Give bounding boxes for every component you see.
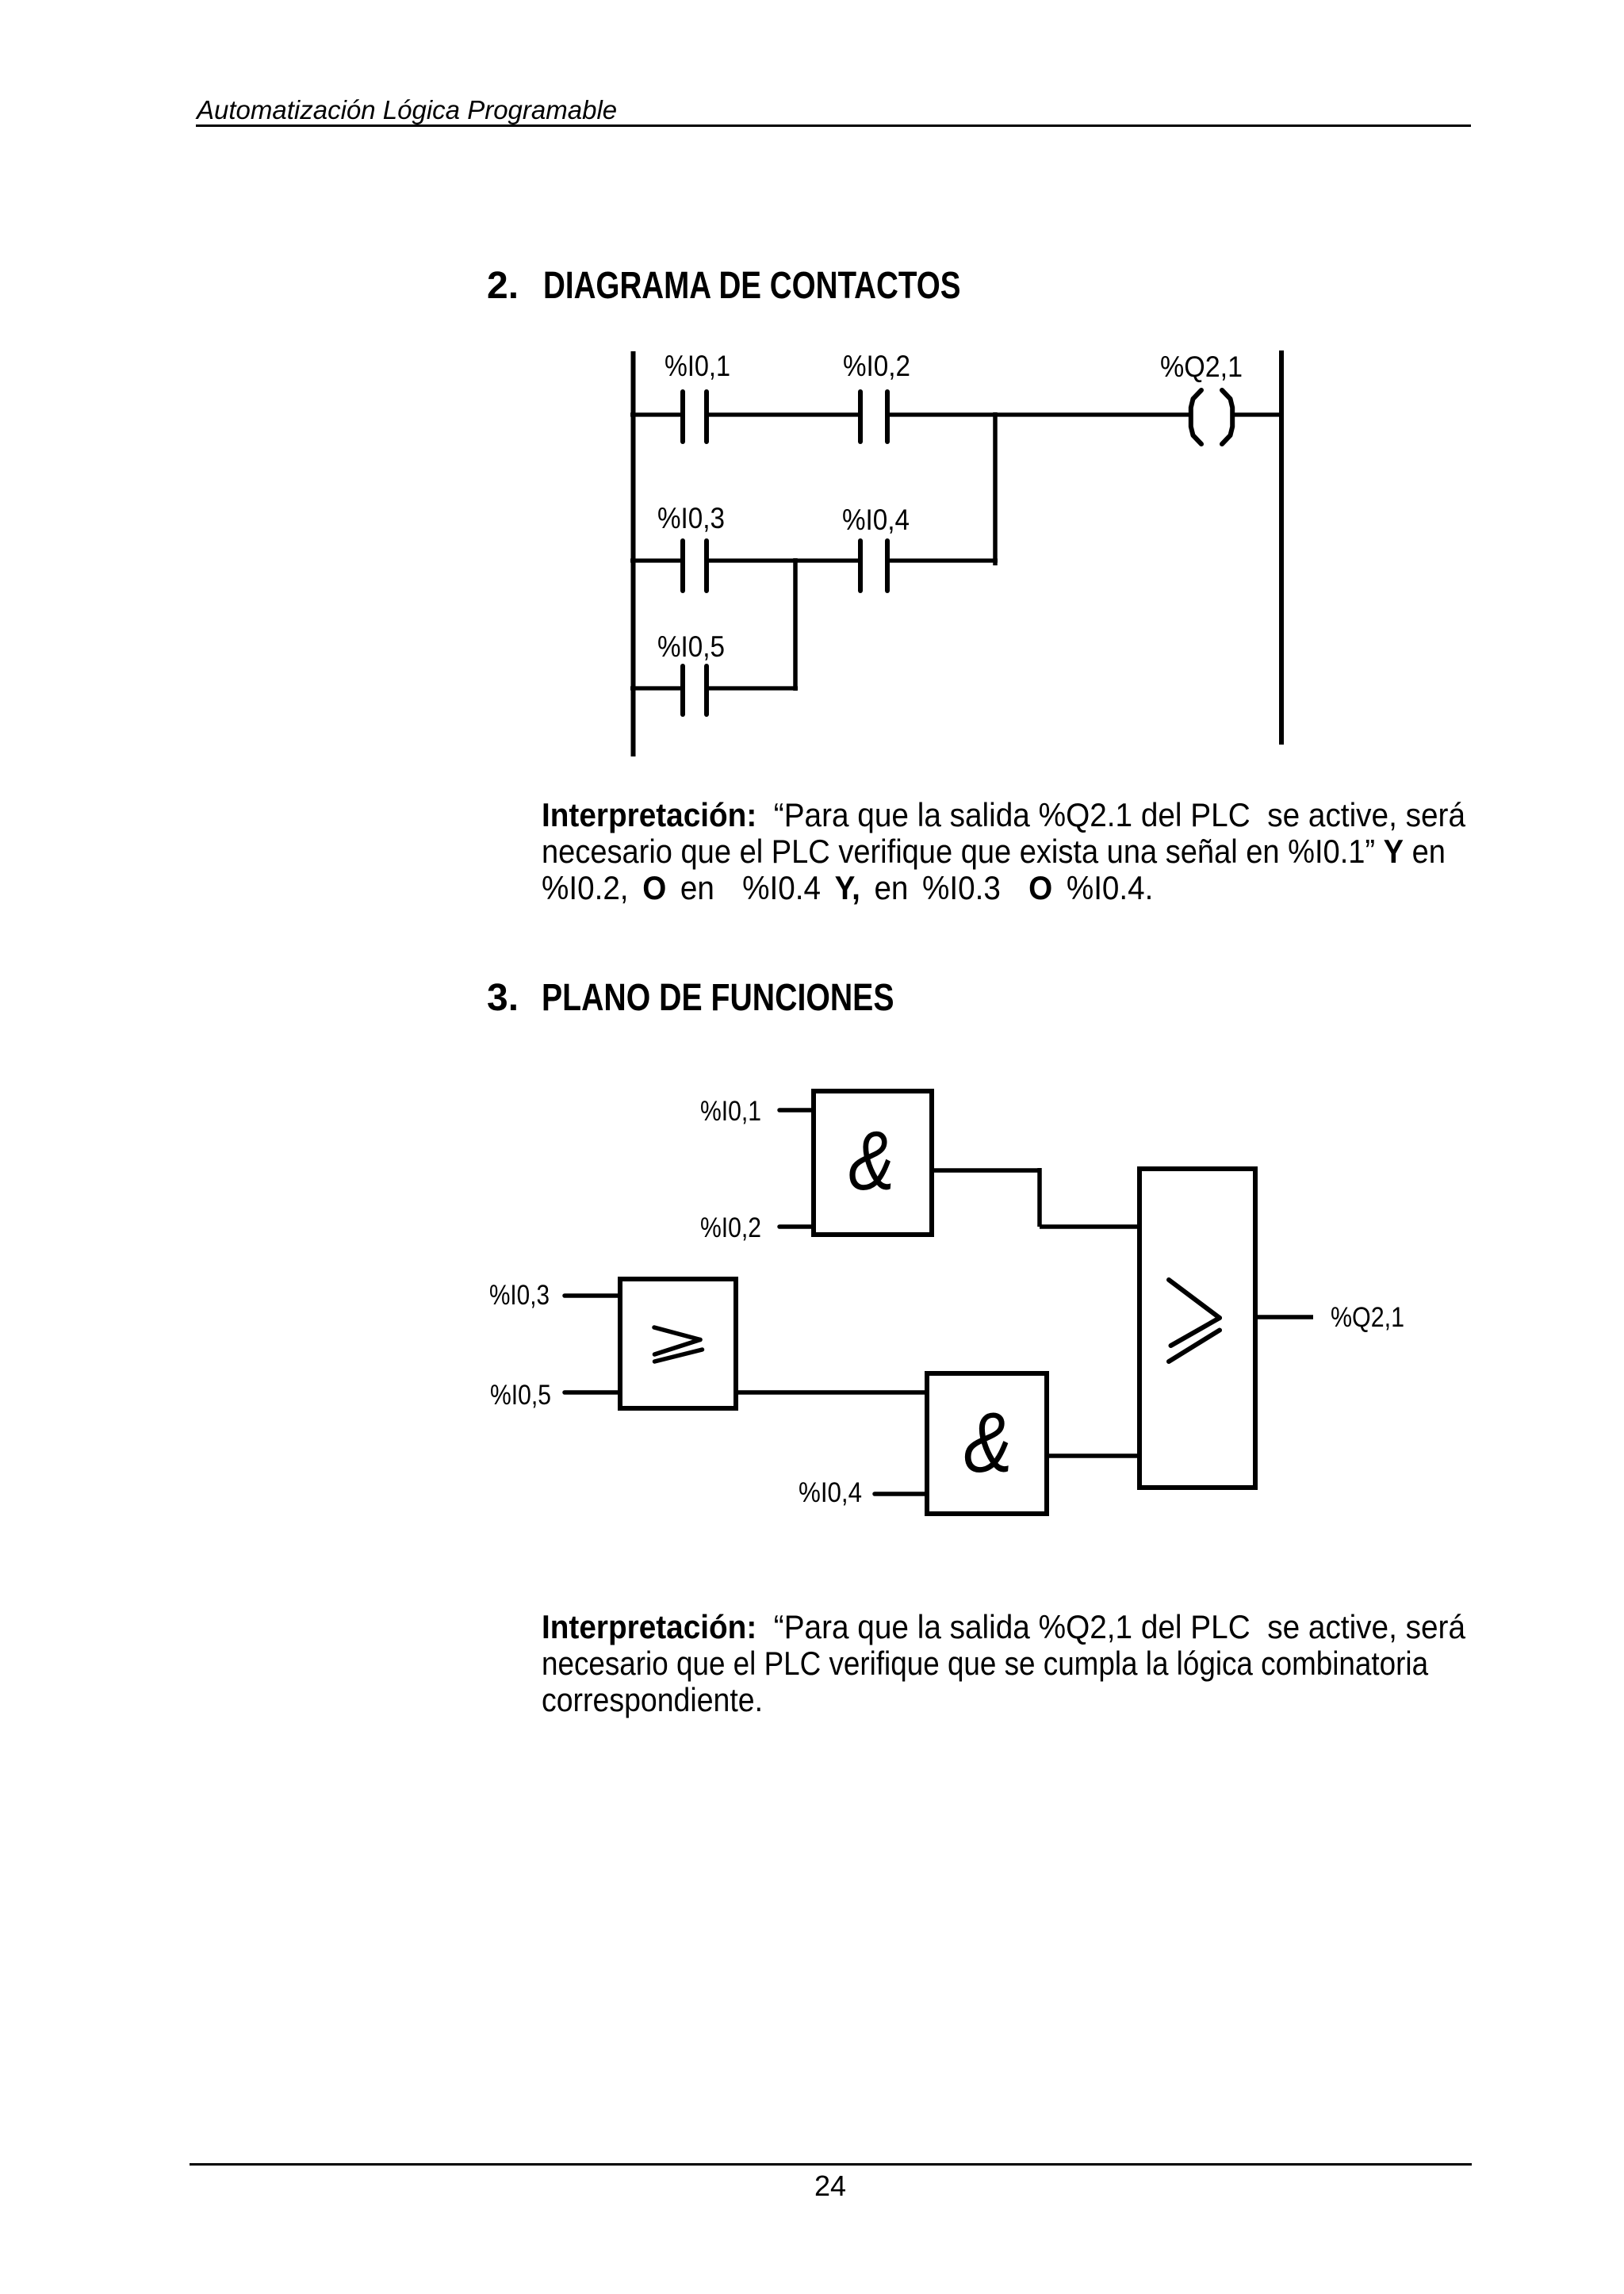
label %I0,5 [657,630,725,663]
label %I0,2 [700,1212,761,1243]
svg-text:%Q2,1: %Q2,1 [1160,350,1243,383]
contact %I0,5 [683,666,707,714]
section heading 3 [487,979,519,1017]
svg-text:%I0,2: %I0,2 [700,1212,761,1243]
ladder: left power rail [631,351,636,756]
label %I0,4 [842,504,910,536]
svg-text:%I0,3: %I0,3 [489,1280,550,1311]
OR gate U4 symbol >= [1169,1280,1220,1361]
footer rule [190,2163,1472,2166]
svg-text:&: & [848,1113,894,1208]
section heading 2 [487,267,519,305]
wire input %I0,2 [779,1224,814,1229]
coil %Q2,1 [1191,390,1232,444]
interpretation paragraph 1 [542,798,1465,832]
wire into OR gate top input [1040,1224,1139,1229]
wire step down [1037,1168,1042,1227]
label %I0,3 [489,1280,550,1311]
contact %I0,3 [683,541,707,591]
svg-text:%I0,2: %I0,2 [843,350,910,382]
label %I0,4 [799,1477,862,1508]
header running title [197,97,617,123]
wire U1 output [932,1168,1040,1173]
label %I0,3 [657,502,725,534]
contact %I0,1 [683,392,707,442]
wire input %I0,5 [565,1390,620,1395]
svg-text:%I0,5: %I0,5 [490,1380,551,1411]
rung 2 wire segments [630,558,998,562]
label %Q2,1 [1331,1302,1404,1333]
junction wire rung2-rung3 [793,558,798,691]
AND gate U3 symbol & [963,1395,1012,1491]
rung 1 wire segments [630,412,1281,416]
junction wire rung1-rung2 [993,412,998,565]
interpretation paragraph 2 [542,1610,1465,1644]
AND gate U3 box [927,1373,1047,1514]
svg-text:%I0,3: %I0,3 [657,502,725,534]
label %Q2,1 [1160,350,1243,383]
OR gate U4 box [1139,1169,1255,1488]
page number [814,2172,846,2200]
svg-text:%I0,4: %I0,4 [799,1477,862,1508]
wire input %I0,3 [565,1293,620,1298]
label %I0,5 [490,1380,551,1411]
wire input %I0,1 [779,1108,814,1113]
label %I0,2 [843,350,910,382]
OR gate U2 box [620,1279,736,1408]
wire U2 output to U3 [736,1390,927,1395]
ladder: right power rail [1279,350,1284,745]
OR gate U2 symbol >= [654,1327,703,1361]
label %I0,1 [700,1096,761,1127]
svg-text:%I0,5: %I0,5 [657,630,725,663]
svg-text:%I0,1: %I0,1 [700,1096,761,1127]
svg-text:&: & [963,1395,1012,1491]
AND gate U1 box [814,1091,932,1235]
svg-text:%I0,1: %I0,1 [665,350,730,382]
AND gate U1 symbol & [848,1113,894,1208]
wire U3 output to OR gate [1047,1453,1139,1458]
contact %I0,4 [860,541,887,591]
contact %I0,2 [860,392,887,442]
rung 3 wire segments [630,686,798,690]
wire input %I0,4 [875,1492,927,1496]
svg-text:%I0,4: %I0,4 [842,504,910,536]
header rule [196,124,1471,127]
svg-text:%Q2,1: %Q2,1 [1331,1302,1404,1333]
label %I0,1 [665,350,730,382]
wire output %Q2,1 [1255,1315,1313,1319]
